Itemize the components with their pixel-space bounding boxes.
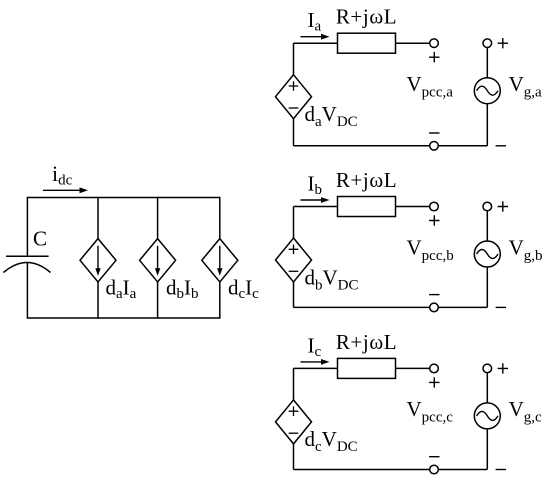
wire phase b left vertical upper <box>293 207 295 239</box>
ac source V_g,a top terminal <box>483 39 492 48</box>
wire phase b bottom right segment <box>438 306 487 308</box>
resistor R+jwL phase b <box>338 197 396 217</box>
wire dc top bus <box>27 197 219 199</box>
resistor R+jwL phase c <box>338 358 396 378</box>
svg-text:dcVDC: dcVDC <box>305 427 358 455</box>
svg-text:Vg,c: Vg,c <box>509 397 542 426</box>
svg-text:Vpcc,a: Vpcc,a <box>407 72 454 101</box>
node V_pcc,a top terminal <box>430 39 439 48</box>
voltage source d_aV_DC <box>276 75 312 119</box>
voltage source d_cV_DC <box>276 400 312 444</box>
node V_pcc,b plus polarity <box>429 215 439 225</box>
wire phase c top left segment <box>294 367 338 369</box>
capacitor C <box>4 256 51 272</box>
wire phase a left vertical lower <box>293 119 295 146</box>
ac source V_g,b plus polarity <box>498 201 508 211</box>
node V_pcc,a minus polarity <box>429 132 439 134</box>
wire phase a left vertical upper <box>293 43 295 74</box>
node V_pcc,c bottom terminal <box>430 465 439 474</box>
ac source V_g,a plus polarity <box>498 38 508 48</box>
node V_pcc,c top terminal <box>430 364 439 373</box>
wire phase c left vertical lower <box>293 444 295 470</box>
wire branch b upper vertical <box>157 197 159 239</box>
ac source V_g,b top terminal <box>483 202 492 211</box>
svg-text:Ib: Ib <box>308 172 323 199</box>
svg-text:R+jωL: R+jωL <box>336 168 397 192</box>
wire phase b top left segment <box>294 206 338 208</box>
ac source V_g,a minus polarity <box>496 145 506 147</box>
svg-text:dbIb: dbIb <box>166 276 199 303</box>
wire phase c top right segment <box>396 367 430 369</box>
svg-text:Vpcc,c: Vpcc,c <box>407 397 454 426</box>
node V_pcc,c minus polarity <box>429 456 439 458</box>
wire dc bottom bus <box>27 317 219 319</box>
wire phase b left vertical lower <box>293 282 295 307</box>
svg-text:daIa: daIa <box>106 276 137 303</box>
svg-text:daVDC: daVDC <box>305 102 358 130</box>
ac source V_g,b <box>474 241 500 267</box>
wire ac source b upper lead <box>486 211 488 241</box>
wire ac source c lower lead <box>486 429 488 470</box>
I_a current arrow <box>301 36 323 38</box>
wire branch c lower vertical <box>219 282 221 319</box>
svg-text:R+jωL: R+jωL <box>336 5 397 29</box>
wire phase a bottom left segment <box>294 145 430 147</box>
wire phase a top left segment <box>294 42 338 44</box>
wire branch a lower vertical <box>97 282 99 319</box>
wire ac source b lower lead <box>486 267 488 307</box>
current source d_bI_b <box>140 239 176 282</box>
wire phase b top right segment <box>396 206 430 208</box>
svg-text:C: C <box>33 227 47 251</box>
wire phase a top right segment <box>396 42 430 44</box>
current source d_aI_a <box>80 239 116 282</box>
svg-text:dbVDC: dbVDC <box>305 265 359 293</box>
svg-text:idc: idc <box>52 161 73 189</box>
wire dc left vertical lower <box>26 263 28 319</box>
wire ac source c upper lead <box>486 373 488 403</box>
I_b current arrow <box>301 199 323 201</box>
wire branch c upper vertical <box>219 197 221 239</box>
svg-text:Ia: Ia <box>308 8 322 35</box>
svg-text:dcIc: dcIc <box>228 276 259 303</box>
ac source V_g,b minus polarity <box>496 306 506 308</box>
wire phase b bottom left segment <box>294 306 430 308</box>
ac source V_g,c plus polarity <box>498 363 508 373</box>
node V_pcc,a bottom terminal <box>430 142 439 151</box>
wire ac source a lower lead <box>486 104 488 146</box>
svg-text:Vpcc,b: Vpcc,b <box>407 235 454 263</box>
wire ac source a upper lead <box>486 48 488 78</box>
node V_pcc,c plus polarity <box>429 377 439 387</box>
ac source V_g,c top terminal <box>483 364 492 373</box>
resistor R+jwL phase a <box>338 33 396 53</box>
wire branch a upper vertical <box>97 197 99 239</box>
node V_pcc,b bottom terminal <box>430 303 439 312</box>
ac source V_g,c <box>474 403 500 429</box>
svg-text:Vg,b: Vg,b <box>509 235 543 263</box>
wire phase c bottom left segment <box>294 469 430 471</box>
wire branch b lower vertical <box>157 282 159 319</box>
i_dc current arrow <box>43 189 81 191</box>
wire phase c left vertical upper <box>293 368 295 400</box>
I_c current arrow <box>301 361 323 363</box>
ac source V_g,a <box>474 78 500 104</box>
svg-text:R+jωL: R+jωL <box>336 330 397 354</box>
wire dc left vertical upper <box>26 197 28 256</box>
current source d_cI_c <box>202 239 238 282</box>
ac source V_g,c minus polarity <box>496 469 506 471</box>
node V_pcc,a plus polarity <box>429 52 439 62</box>
wire phase c bottom right segment <box>438 469 487 471</box>
node V_pcc,b top terminal <box>430 202 439 211</box>
node V_pcc,b minus polarity <box>429 294 439 296</box>
svg-text:Ic: Ic <box>308 333 322 360</box>
svg-text:Vg,a: Vg,a <box>509 72 542 101</box>
wire phase a bottom right segment <box>438 145 487 147</box>
voltage source d_bV_DC <box>276 238 312 282</box>
